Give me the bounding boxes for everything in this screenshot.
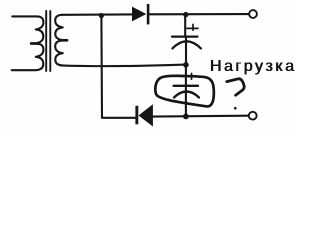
wire C1 bottom lead <box>185 38 187 65</box>
capacitor C2 plates <box>174 86 199 98</box>
wire top rail left (secondary top to diode D1) <box>62 13 132 16</box>
transformer T1 core <box>45 11 47 71</box>
wire bottom rail left (corner to D2) <box>102 117 136 119</box>
capacitor C1 plates <box>172 37 201 49</box>
output terminal bottom <box>249 112 257 120</box>
label Нагрузка (load) <box>210 58 297 76</box>
wire C2 bottom lead <box>185 87 187 117</box>
transformer T1 primary winding upper half <box>31 16 44 43</box>
node B junction dot (top rail / C1) <box>183 12 188 17</box>
node C junction dot (middle rail / C1-C2) <box>183 62 189 68</box>
annotation chevron mark (hand-drawn) <box>227 79 244 95</box>
wire C2 top lead <box>185 65 187 86</box>
annotation ellipse around C2 (hand-drawn) <box>155 76 214 107</box>
wire C1 top lead <box>184 15 186 37</box>
wire primary top lead <box>12 15 36 17</box>
annotation ink dot <box>234 107 237 110</box>
wire bottom rail right (D2 to output) <box>153 115 249 118</box>
wire middle rail (secondary bottom to node C) <box>61 65 186 67</box>
output terminal top <box>249 10 257 18</box>
capacitor C1 polarity plus <box>187 24 198 30</box>
transformer T1 secondary winding lower half <box>55 41 67 66</box>
transformer T1 primary winding lower half <box>12 44 44 70</box>
diode D1 <box>132 4 149 25</box>
wire top rail right (D1 cathode to output) <box>149 13 248 15</box>
capacitor C2 polarity plus <box>189 73 196 79</box>
wire node A vertical drop <box>100 16 103 118</box>
diode D2 <box>135 104 153 126</box>
node A junction dot <box>99 13 104 18</box>
node D junction dot (bottom rail / C2) <box>183 114 189 120</box>
transformer T1 secondary winding upper half <box>55 15 67 40</box>
